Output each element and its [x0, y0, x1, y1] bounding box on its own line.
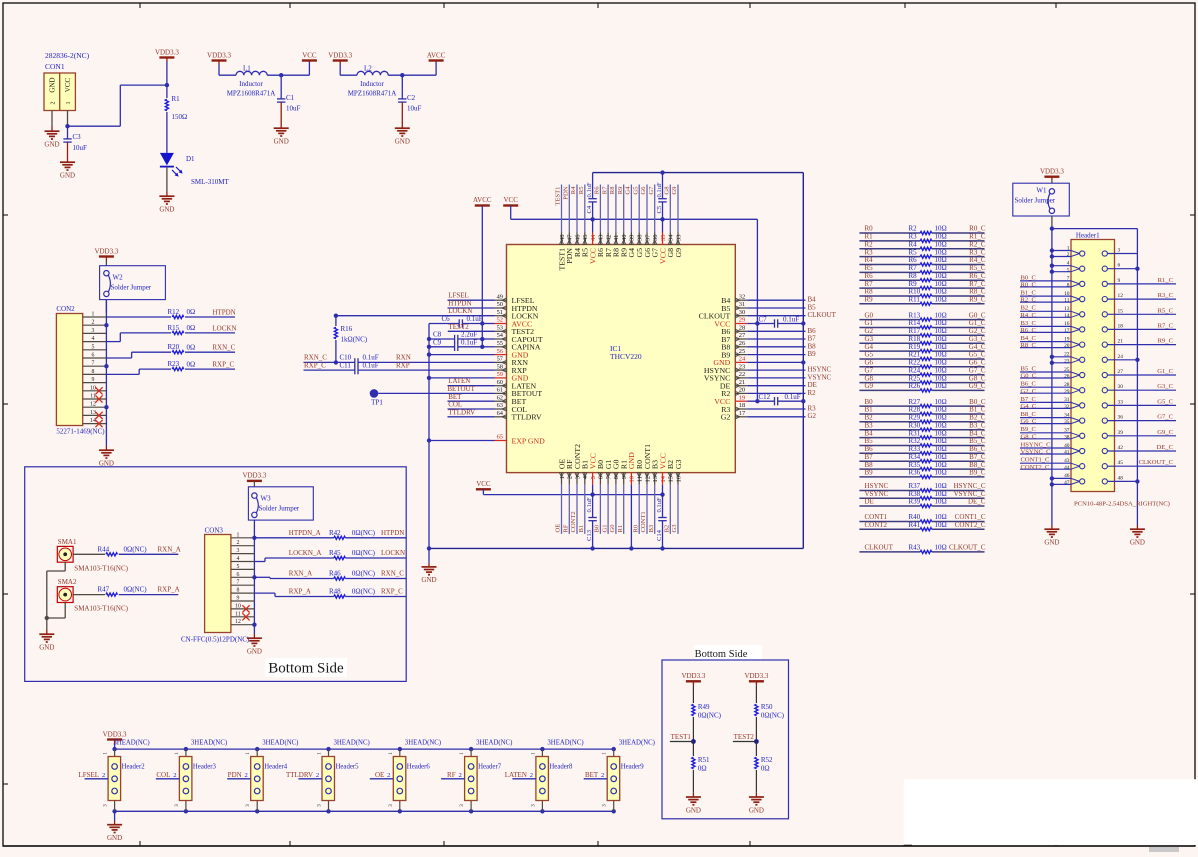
svg-text:VCC: VCC [503, 196, 518, 204]
svg-text:G9_C: G9_C [1157, 429, 1173, 436]
svg-text:R39: R39 [909, 498, 921, 506]
svg-text:3: 3 [237, 548, 240, 554]
svg-text:R42: R42 [329, 529, 341, 537]
svg-text:LATEN: LATEN [448, 377, 470, 385]
svg-text:B4: B4 [808, 296, 817, 304]
svg-text:10Ω: 10Ω [935, 233, 947, 241]
svg-text:0Ω(NC): 0Ω(NC) [352, 570, 376, 578]
svg-text:47: 47 [1064, 480, 1070, 486]
svg-text:GND: GND [107, 834, 122, 842]
svg-text:10Ω: 10Ω [935, 343, 947, 351]
svg-text:R20: R20 [168, 343, 180, 351]
svg-text:R29: R29 [909, 414, 921, 422]
svg-text:0.1uF: 0.1uF [656, 182, 663, 198]
svg-text:2: 2 [601, 772, 604, 779]
svg-text:CLKOUT_C: CLKOUT_C [949, 544, 986, 552]
svg-text:VDD3.3: VDD3.3 [744, 672, 768, 680]
svg-text:6: 6 [237, 572, 240, 578]
svg-text:15: 15 [668, 476, 675, 482]
svg-text:R0: R0 [632, 524, 639, 532]
svg-text:R24: R24 [909, 366, 921, 374]
svg-text:C14: C14 [656, 529, 663, 541]
svg-text:HTPDN_A: HTPDN_A [289, 529, 321, 537]
svg-text:R9: R9 [617, 186, 624, 194]
svg-text:65: 65 [497, 434, 503, 441]
svg-text:19: 19 [739, 394, 745, 401]
svg-text:C12: C12 [759, 393, 771, 401]
svg-text:R8_C: R8_C [1021, 342, 1037, 349]
svg-text:C11: C11 [340, 361, 352, 369]
svg-text:0Ω(NC): 0Ω(NC) [698, 712, 722, 720]
svg-text:W2: W2 [113, 274, 124, 282]
svg-text:2: 2 [530, 772, 533, 779]
svg-text:41: 41 [613, 235, 620, 241]
svg-text:G0_C: G0_C [1021, 373, 1037, 380]
svg-text:36: 36 [1118, 415, 1124, 421]
svg-text:B2: B2 [664, 525, 671, 533]
svg-text:B0_C: B0_C [969, 398, 986, 406]
svg-text:R5: R5 [865, 264, 874, 272]
svg-text:2: 2 [173, 772, 176, 779]
svg-text:OE: OE [375, 771, 384, 779]
svg-text:10Ω: 10Ω [935, 406, 947, 414]
svg-text:B4_C: B4_C [969, 429, 986, 437]
svg-text:B4: B4 [865, 429, 874, 437]
svg-text:2: 2 [567, 476, 574, 479]
svg-text:GND: GND [49, 77, 57, 92]
svg-text:GND: GND [1044, 539, 1059, 547]
svg-text:HTPDN: HTPDN [448, 299, 471, 307]
svg-text:61: 61 [497, 387, 503, 394]
svg-text:C8: C8 [433, 331, 442, 339]
svg-text:CONT2_C: CONT2_C [1021, 464, 1051, 471]
svg-text:R1: R1 [617, 525, 624, 533]
svg-text:32: 32 [1064, 404, 1070, 410]
svg-text:G3: G3 [674, 459, 683, 469]
svg-text:B8_C: B8_C [969, 461, 986, 469]
svg-text:G8: G8 [865, 374, 874, 382]
svg-text:3HEAD(NC): 3HEAD(NC) [619, 740, 655, 747]
svg-text:C1: C1 [286, 94, 295, 102]
svg-text:G0_C: G0_C [969, 311, 986, 319]
svg-text:13: 13 [652, 476, 659, 482]
svg-text:10Ω: 10Ω [935, 311, 947, 319]
svg-text:C6: C6 [442, 315, 451, 323]
svg-text:CON2: CON2 [56, 305, 75, 313]
svg-text:R8: R8 [909, 272, 918, 280]
svg-text:1: 1 [237, 532, 240, 538]
svg-text:44: 44 [590, 234, 597, 241]
svg-text:R23: R23 [168, 360, 180, 368]
svg-text:B3_C: B3_C [969, 421, 986, 429]
svg-text:R18: R18 [909, 335, 921, 343]
svg-text:CONT2: CONT2 [570, 511, 577, 532]
svg-text:29: 29 [739, 317, 745, 324]
svg-text:11: 11 [235, 611, 241, 617]
svg-text:GND: GND [60, 172, 75, 180]
svg-text:CONT1: CONT1 [640, 511, 647, 532]
svg-text:14: 14 [660, 475, 667, 482]
svg-text:45: 45 [1118, 460, 1124, 466]
svg-text:G7_C: G7_C [1157, 414, 1173, 421]
svg-text:R6_C: R6_C [1021, 327, 1037, 334]
svg-text:B7_C: B7_C [969, 453, 986, 461]
svg-text:2: 2 [316, 772, 319, 779]
svg-text:49: 49 [497, 293, 503, 300]
svg-text:53: 53 [497, 325, 503, 332]
svg-text:VDD3.3: VDD3.3 [103, 730, 127, 738]
svg-text:2: 2 [245, 772, 248, 779]
svg-text:G6: G6 [640, 186, 647, 195]
svg-text:R2: R2 [909, 225, 918, 233]
svg-text:6: 6 [1118, 263, 1121, 269]
svg-text:5: 5 [590, 476, 597, 479]
svg-text:3HEAD(NC): 3HEAD(NC) [405, 740, 441, 747]
svg-text:THCV220: THCV220 [610, 352, 642, 361]
svg-text:GND: GND [39, 644, 54, 652]
svg-text:R2_C: R2_C [1021, 297, 1037, 304]
svg-text:R1: R1 [865, 233, 874, 241]
svg-text:20: 20 [739, 387, 745, 394]
svg-text:27: 27 [739, 332, 746, 339]
svg-text:GND: GND [1130, 539, 1145, 547]
svg-text:0Ω(NC): 0Ω(NC) [352, 549, 376, 557]
svg-text:HTPDN: HTPDN [381, 529, 404, 537]
svg-text:MPZ1608R471A: MPZ1608R471A [348, 90, 397, 98]
svg-text:TTLDRV: TTLDRV [286, 771, 313, 779]
svg-text:0Ω: 0Ω [187, 324, 196, 332]
svg-text:B0: B0 [594, 524, 601, 532]
svg-text:R22: R22 [909, 359, 921, 367]
svg-text:B0: B0 [865, 398, 874, 406]
svg-text:36: 36 [652, 235, 659, 241]
svg-text:LOCKN: LOCKN [212, 324, 236, 332]
svg-text:2: 2 [458, 772, 461, 779]
svg-text:48: 48 [559, 235, 566, 241]
svg-text:R27: R27 [909, 398, 921, 406]
svg-text:G4_C: G4_C [1021, 403, 1037, 410]
svg-text:4: 4 [237, 556, 240, 562]
svg-text:B7: B7 [865, 453, 874, 461]
svg-text:G7_C: G7_C [969, 366, 986, 374]
svg-text:10Ω: 10Ω [935, 280, 947, 288]
svg-text:VDD3.3: VDD3.3 [207, 51, 231, 59]
svg-text:RXP_A: RXP_A [158, 586, 180, 594]
svg-text:R6_C: R6_C [969, 272, 986, 280]
svg-text:G6_C: G6_C [1021, 418, 1037, 425]
svg-text:10Ω: 10Ω [935, 374, 947, 382]
svg-text:B9_C: B9_C [1021, 426, 1037, 433]
svg-text:R5: R5 [578, 186, 585, 194]
svg-text:10Ω: 10Ω [935, 327, 947, 335]
svg-text:51: 51 [497, 309, 503, 316]
svg-text:10Ω: 10Ω [935, 335, 947, 343]
svg-text:R1_C: R1_C [1158, 277, 1174, 284]
svg-text:23: 23 [1064, 358, 1070, 364]
svg-text:0Ω: 0Ω [698, 765, 707, 773]
svg-text:CN-FFC(0.5)12PD(NC): CN-FFC(0.5)12PD(NC) [181, 636, 250, 644]
svg-text:8: 8 [1067, 283, 1070, 289]
svg-text:GND: GND [159, 206, 174, 214]
svg-text:G3_C: G3_C [969, 335, 986, 343]
svg-text:21: 21 [1118, 339, 1124, 345]
svg-text:48: 48 [1118, 475, 1124, 481]
svg-text:Header1: Header1 [1076, 231, 1100, 239]
svg-text:GND: GND [686, 806, 701, 814]
svg-text:R52: R52 [761, 756, 773, 764]
svg-text:G0: G0 [865, 311, 874, 319]
svg-text:28: 28 [739, 325, 745, 332]
svg-text:VSYNC: VSYNC [808, 373, 832, 381]
svg-text:47: 47 [567, 234, 574, 241]
svg-text:G4: G4 [625, 186, 632, 195]
svg-text:GND: GND [247, 648, 262, 656]
svg-text:R0_C: R0_C [1021, 282, 1037, 289]
svg-text:52271-1469(NC): 52271-1469(NC) [56, 428, 105, 436]
svg-text:8: 8 [237, 588, 240, 594]
svg-text:RXP_C: RXP_C [212, 361, 234, 369]
svg-text:VDD3.3: VDD3.3 [328, 51, 352, 59]
svg-text:R3_C: R3_C [1158, 292, 1174, 299]
svg-text:0Ω(NC): 0Ω(NC) [124, 586, 148, 594]
svg-text:27: 27 [1118, 369, 1124, 375]
svg-text:R8: R8 [865, 288, 874, 296]
svg-text:B9: B9 [865, 469, 874, 477]
svg-text:CON1: CON1 [45, 62, 65, 71]
svg-text:B8: B8 [808, 342, 817, 350]
svg-text:15: 15 [1118, 308, 1124, 314]
svg-text:45: 45 [582, 235, 589, 241]
svg-text:10Ω: 10Ω [935, 288, 947, 296]
svg-text:GND: GND [274, 138, 289, 146]
svg-text:5: 5 [92, 344, 95, 350]
svg-text:G6_C: G6_C [969, 359, 986, 367]
svg-text:1: 1 [66, 102, 72, 105]
svg-text:G5: G5 [632, 186, 639, 195]
svg-text:1: 1 [559, 476, 566, 479]
svg-text:3: 3 [1118, 248, 1121, 254]
svg-text:R32: R32 [909, 437, 921, 445]
svg-text:B2_C: B2_C [1021, 305, 1037, 312]
svg-text:G5: G5 [865, 351, 874, 359]
svg-text:R45: R45 [329, 549, 341, 557]
svg-text:G0: G0 [609, 524, 616, 533]
svg-text:0Ω: 0Ω [187, 308, 196, 316]
svg-text:10Ω: 10Ω [935, 225, 947, 233]
svg-text:C2: C2 [407, 94, 416, 102]
svg-text:Bottom Side: Bottom Side [268, 661, 344, 677]
svg-text:R7: R7 [909, 264, 918, 272]
svg-text:C4: C4 [586, 205, 593, 213]
svg-text:10Ω: 10Ω [935, 498, 947, 506]
svg-text:52: 52 [497, 317, 503, 324]
svg-text:DE_C: DE_C [1157, 444, 1174, 451]
svg-text:34: 34 [668, 234, 675, 241]
svg-text:14: 14 [1064, 313, 1070, 319]
svg-text:VDD3.3: VDD3.3 [1040, 168, 1064, 176]
svg-text:58: 58 [497, 363, 503, 370]
svg-text:33: 33 [1118, 399, 1124, 405]
svg-text:GND: GND [421, 576, 436, 584]
svg-text:GND: GND [749, 806, 764, 814]
svg-text:R0_C: R0_C [969, 225, 986, 233]
svg-text:W3: W3 [261, 495, 272, 503]
svg-text:2: 2 [1067, 252, 1070, 258]
svg-text:R3_C: R3_C [969, 248, 986, 256]
svg-text:10Ω: 10Ω [935, 240, 947, 248]
svg-text:31: 31 [739, 301, 745, 308]
svg-text:R48: R48 [329, 588, 341, 596]
svg-text:9: 9 [1118, 278, 1121, 284]
svg-text:B3: B3 [865, 421, 874, 429]
svg-text:38: 38 [1064, 434, 1070, 440]
svg-text:1: 1 [92, 312, 95, 318]
svg-text:11: 11 [637, 476, 644, 482]
svg-text:38: 38 [637, 235, 644, 241]
svg-text:B1_C: B1_C [1021, 290, 1037, 297]
svg-text:R11: R11 [909, 296, 921, 304]
svg-text:C9: C9 [433, 339, 442, 347]
svg-text:C7: C7 [759, 315, 768, 323]
svg-text:10Ω: 10Ω [935, 359, 947, 367]
svg-text:25: 25 [739, 348, 745, 355]
svg-text:56: 56 [497, 348, 503, 355]
svg-text:R31: R31 [909, 429, 921, 437]
svg-text:0.1uF: 0.1uF [363, 361, 379, 369]
svg-text:G8: G8 [664, 186, 671, 195]
svg-text:2.2uF: 2.2uF [461, 331, 477, 339]
svg-text:12: 12 [1118, 293, 1124, 299]
svg-text:G7: G7 [648, 186, 655, 195]
svg-text:3HEAD(NC): 3HEAD(NC) [334, 740, 370, 747]
svg-text:3HEAD(NC): 3HEAD(NC) [191, 740, 227, 747]
svg-text:CON3: CON3 [205, 527, 224, 535]
svg-text:R30: R30 [909, 421, 921, 429]
svg-text:40: 40 [621, 235, 628, 241]
svg-text:10Ω: 10Ω [935, 319, 947, 327]
svg-text:44: 44 [1064, 465, 1070, 471]
svg-text:DE_C: DE_C [968, 498, 986, 506]
svg-text:R14: R14 [909, 319, 921, 327]
svg-text:3HEAD(NC): 3HEAD(NC) [262, 740, 298, 747]
svg-text:0.1uF: 0.1uF [783, 315, 799, 323]
svg-text:TP1: TP1 [371, 399, 383, 407]
svg-text:4: 4 [92, 336, 95, 342]
svg-text:RXN: RXN [396, 354, 411, 362]
svg-text:TEST1: TEST1 [671, 733, 692, 741]
svg-text:2: 2 [92, 320, 95, 326]
svg-text:10: 10 [235, 603, 241, 609]
svg-text:TEST2: TEST2 [734, 733, 755, 741]
svg-text:RXP: RXP [396, 361, 410, 369]
svg-text:G8_C: G8_C [1021, 433, 1037, 440]
svg-text:RXP_A: RXP_A [289, 588, 311, 596]
svg-text:7: 7 [92, 361, 95, 367]
svg-text:22: 22 [739, 371, 745, 378]
svg-text:CONT2: CONT2 [865, 521, 888, 529]
svg-text:10Ω: 10Ω [935, 351, 947, 359]
svg-text:G1_C: G1_C [969, 319, 986, 327]
svg-text:24: 24 [1118, 354, 1124, 360]
svg-text:R1_C: R1_C [969, 233, 986, 241]
svg-text:0Ω(NC): 0Ω(NC) [352, 529, 376, 537]
svg-text:R25: R25 [909, 374, 921, 382]
svg-text:LOCKN: LOCKN [381, 549, 405, 557]
svg-text:10: 10 [90, 385, 96, 391]
svg-text:R13: R13 [909, 311, 921, 319]
svg-text:54: 54 [497, 332, 504, 339]
svg-text:CLKOUT: CLKOUT [865, 544, 894, 552]
svg-text:10Ω: 10Ω [935, 453, 947, 461]
svg-text:R9_C: R9_C [969, 296, 986, 304]
svg-text:B1_C: B1_C [969, 406, 986, 414]
svg-text:10Ω: 10Ω [935, 296, 947, 304]
svg-text:B7: B7 [808, 335, 817, 343]
svg-text:HTPDN: HTPDN [212, 309, 235, 317]
svg-text:RXN_A: RXN_A [158, 545, 181, 553]
svg-text:B8_C: B8_C [1021, 411, 1037, 418]
svg-text:B3: B3 [648, 524, 655, 532]
svg-text:R17: R17 [909, 327, 921, 335]
svg-text:10Ω: 10Ω [935, 521, 947, 529]
svg-text:R3: R3 [909, 233, 918, 241]
svg-text:0.1uF: 0.1uF [586, 182, 593, 198]
svg-text:0Ω(NC): 0Ω(NC) [124, 545, 148, 553]
svg-text:8: 8 [92, 369, 95, 375]
svg-text:RXN_A: RXN_A [289, 570, 312, 578]
svg-text:B3_C: B3_C [1021, 320, 1037, 327]
svg-text:39: 39 [1118, 430, 1124, 436]
svg-text:46: 46 [574, 235, 581, 241]
svg-text:Inductor: Inductor [360, 80, 384, 88]
svg-text:10Ω: 10Ω [935, 469, 947, 477]
svg-text:G9: G9 [674, 248, 683, 258]
svg-text:0Ω: 0Ω [187, 343, 196, 351]
svg-text:G2: G2 [865, 327, 874, 335]
svg-text:R4: R4 [909, 240, 918, 248]
svg-text:C10: C10 [340, 354, 352, 362]
svg-text:Solder Jumper: Solder Jumper [111, 284, 152, 292]
svg-text:0.1uF: 0.1uF [586, 497, 593, 513]
svg-text:63: 63 [497, 402, 503, 409]
svg-text:Header8: Header8 [549, 764, 573, 771]
svg-text:21: 21 [739, 379, 745, 386]
svg-text:10uF: 10uF [73, 144, 88, 152]
svg-text:LATEN: LATEN [505, 771, 527, 779]
svg-text:R35: R35 [909, 461, 921, 469]
svg-text:11: 11 [90, 394, 96, 400]
svg-text:G3_C: G3_C [1157, 383, 1173, 390]
svg-text:MPZ1608R471A: MPZ1608R471A [227, 90, 276, 98]
svg-text:B5: B5 [865, 437, 874, 445]
svg-text:CLKOUT_C: CLKOUT_C [1139, 459, 1174, 466]
svg-text:B4_C: B4_C [1021, 335, 1037, 342]
svg-text:L1: L1 [243, 65, 251, 73]
svg-text:AVCC: AVCC [427, 51, 446, 59]
svg-text:B5_C: B5_C [1021, 365, 1037, 372]
svg-text:R5: R5 [909, 248, 918, 256]
svg-text:9: 9 [621, 476, 628, 479]
svg-text:B6_C: B6_C [969, 445, 986, 453]
svg-text:R4: R4 [570, 186, 577, 194]
svg-text:R5_C: R5_C [1158, 307, 1174, 314]
svg-text:PDN: PDN [228, 771, 242, 779]
svg-text:R1: R1 [172, 95, 181, 103]
svg-text:R50: R50 [761, 703, 773, 711]
svg-text:RXP_C: RXP_C [381, 588, 403, 596]
svg-text:10Ω: 10Ω [935, 490, 947, 498]
svg-text:10Ω: 10Ω [935, 366, 947, 374]
